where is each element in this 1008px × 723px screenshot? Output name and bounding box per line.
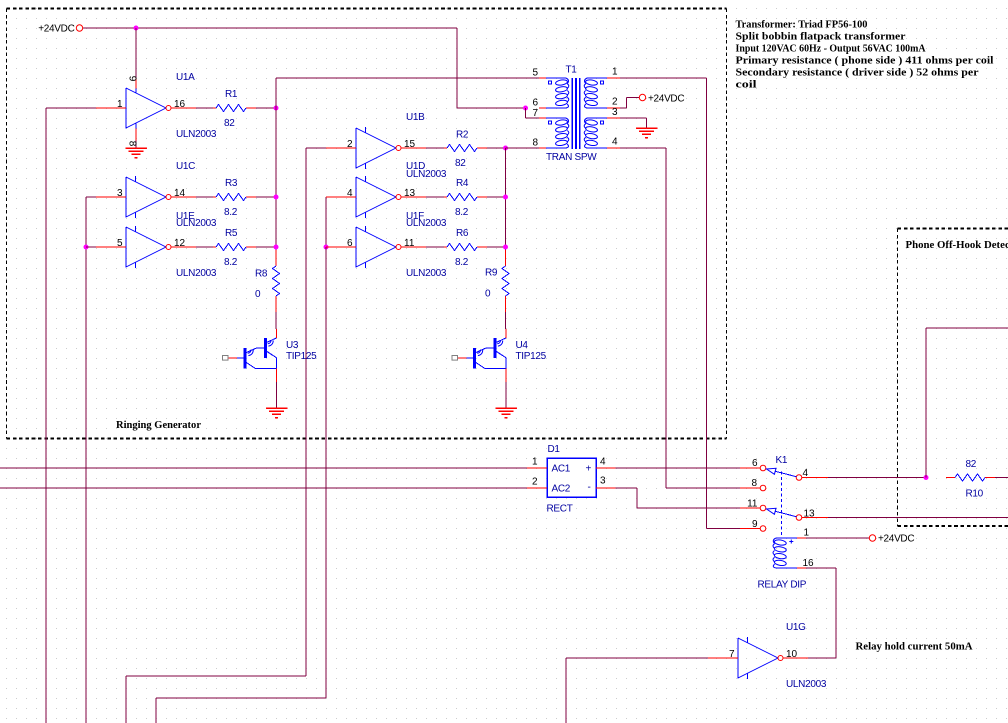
K1 pin 4 label (803, 468, 809, 479)
svg-text:8.2: 8.2 (224, 257, 238, 268)
wire U1D input from left (325, 197, 327, 247)
resistor R8 (273, 250, 280, 312)
svg-text:R10: R10 (966, 489, 984, 500)
U1F pin 11 label (404, 238, 415, 249)
svg-text:8: 8 (532, 138, 538, 149)
svg-text:+24VDC: +24VDC (878, 534, 914, 545)
svg-text:Phone Off-Hook Detector: Phone Off-Hook Detector (906, 239, 1008, 251)
svg-text:R4: R4 (456, 178, 469, 189)
svg-text:Secondary resistance ( driver: Secondary resistance ( driver side ) 52 … (736, 67, 979, 79)
rectifier D1 (527, 458, 616, 497)
wire U1C input from left (86, 197, 96, 723)
ground at T1 pin3 (636, 128, 658, 138)
Ringing Generator dashed box (7, 9, 727, 439)
U1E value label (176, 268, 217, 279)
svg-text:U1E: U1E (176, 211, 195, 222)
wire relay pin1 to +24VDC flag (806, 537, 870, 539)
K1 pin 1 label (804, 528, 810, 539)
U1E pin 12 label (174, 238, 186, 249)
K1 pin 8 label (751, 478, 757, 489)
svg-text:1: 1 (612, 67, 618, 78)
wire T1 pin4 to relay pin8 (620, 148, 740, 488)
node junction top rail to U1A pin9 (134, 26, 139, 31)
wire U1E input stub (86, 246, 96, 248)
wire U1A input from left (46, 108, 96, 723)
power flag +24VDC at relay pin1 (869, 534, 914, 545)
svg-text:1: 1 (117, 99, 123, 110)
svg-text:13: 13 (404, 188, 416, 199)
svg-text:AC2: AC2 (552, 484, 571, 495)
svg-text:coil: coil (736, 79, 757, 91)
U1C value label (176, 218, 217, 229)
svg-text:8: 8 (127, 141, 138, 147)
op-amp buffer U1G (708, 637, 808, 679)
svg-text:4: 4 (612, 137, 618, 148)
svg-text:0: 0 (485, 289, 491, 300)
svg-text:U4: U4 (516, 340, 529, 351)
node R4 output junction (503, 195, 508, 200)
svg-text:2: 2 (347, 139, 353, 150)
T1 pin 6 label (532, 98, 538, 109)
svg-text:12: 12 (174, 238, 186, 249)
svg-text:9: 9 (752, 519, 758, 530)
wire U1C out to R3 (172, 196, 215, 198)
U1D pin 13 label (404, 188, 416, 199)
U1B ref label (406, 112, 425, 123)
T1 pin 3 label (612, 107, 618, 118)
U3 ref label (286, 340, 299, 351)
svg-text:8: 8 (751, 478, 757, 489)
svg-text:Ringing Generator: Ringing Generator (116, 419, 201, 431)
U1C ref label (176, 161, 195, 172)
R4 value label (455, 207, 469, 218)
svg-text:R2: R2 (456, 130, 469, 141)
resistor R1 (213, 105, 256, 112)
node U1F input junction (324, 245, 329, 250)
op-amp buffer U1B (326, 127, 426, 169)
node R10 junction (924, 475, 929, 480)
U1F pin 6 label (347, 238, 353, 249)
wire D1 pin4 to relay pin6 (616, 467, 741, 469)
Phone Off-Hook Detector label (906, 239, 1008, 251)
svg-text:10: 10 (786, 649, 798, 660)
R2 ref label (456, 130, 469, 141)
svg-text:R8: R8 (255, 269, 268, 280)
wire relay pin13 to right edge (828, 517, 1008, 519)
T1 pin 5 label (532, 68, 538, 79)
U1A pin 9 label (127, 76, 138, 82)
resistor R5 (213, 244, 256, 251)
K1 pin 16 label (803, 558, 815, 569)
svg-text:Primary resistance ( phone sid: Primary resistance ( phone side ) 411 oh… (736, 55, 994, 67)
R3 value label (224, 207, 238, 218)
U1F value label (406, 268, 447, 279)
relay note (856, 641, 973, 653)
R5 value label (224, 257, 238, 268)
T1 pin 2 label (612, 97, 618, 108)
U1C pin 14 label (174, 188, 186, 199)
wire T1 pin3 to ground (620, 118, 647, 128)
wire T1 pin1 to relay pin9 (620, 78, 740, 529)
svg-text:R3: R3 (225, 178, 238, 189)
T1 pin 1 label (612, 67, 618, 78)
R1 ref label (225, 89, 238, 100)
svg-text:8.2: 8.2 (455, 207, 469, 218)
wire T1 pin7 jog (526, 108, 541, 118)
svg-text:K1: K1 (776, 455, 788, 466)
R1 value label (224, 118, 235, 129)
D1 pin 4 label (600, 457, 606, 468)
svg-text:U1F: U1F (406, 211, 424, 222)
R2 value label (455, 158, 466, 169)
svg-text:7: 7 (532, 108, 538, 119)
svg-text:+24VDC: +24VDC (38, 24, 74, 35)
U1G pin 7 label (729, 649, 735, 660)
U1A pin 8 label (127, 141, 138, 147)
K1 ref label (776, 455, 788, 466)
T1 pin 8 label (532, 138, 538, 149)
svg-text:ULN2003: ULN2003 (786, 679, 827, 690)
svg-text:-: - (588, 482, 591, 493)
op-amp buffer U1F (326, 226, 426, 268)
svg-text:Split bobbin flatpack transfor: Split bobbin flatpack transformer (736, 31, 906, 43)
D1 plus label (586, 464, 592, 475)
node U1E input junction (84, 245, 89, 250)
wire R3 to junction (255, 196, 276, 198)
wire T1 pin2 to +24VDC flag (620, 98, 640, 109)
U1E pin 5 label (117, 238, 123, 249)
op-amp buffer U1D (326, 176, 426, 218)
wire D1 pin3 to relay pin11 (616, 488, 741, 508)
ground under U1A (125, 148, 147, 158)
op-amp buffer U1E (96, 226, 196, 268)
K1 pin 9 label (752, 519, 758, 530)
svg-text:Input 120VAC 60Hz - Output 56V: Input 120VAC 60Hz - Output 56VAC 100mA (736, 43, 926, 55)
wire relay pin16 to U1G out (806, 568, 837, 658)
wire R4 to junction (487, 196, 506, 198)
resistor R4 (444, 194, 487, 201)
D1 minus label (588, 482, 591, 493)
svg-text:3: 3 (600, 476, 606, 487)
svg-text:82: 82 (966, 459, 977, 470)
U1D value label (406, 218, 447, 229)
svg-text:8.2: 8.2 (224, 207, 238, 218)
svg-text:11: 11 (404, 238, 415, 249)
svg-text:16: 16 (174, 99, 186, 110)
wire U1D out to R4 (401, 196, 445, 198)
resistor R10 (946, 474, 995, 481)
svg-text:AC1: AC1 (552, 464, 571, 475)
svg-text:82: 82 (224, 118, 235, 129)
svg-text:6: 6 (347, 238, 353, 249)
svg-text:1: 1 (532, 457, 538, 468)
power flag +24VDC top left (38, 24, 82, 35)
wire U1B input from left (126, 148, 326, 723)
svg-text:U1B: U1B (406, 112, 425, 123)
svg-text:ULN2003: ULN2003 (406, 268, 447, 279)
T1 value label (546, 152, 597, 163)
R9 ref label (485, 268, 498, 279)
svg-text:6: 6 (752, 458, 758, 469)
D1 pin 1 label (532, 457, 538, 468)
svg-text:5: 5 (532, 68, 538, 79)
K1 pin 13 label (804, 509, 816, 520)
svg-text:4: 4 (803, 468, 809, 479)
wire +24VDC top rail (83, 28, 523, 108)
U1D pin 4 label (347, 188, 353, 199)
K1 pin 11 label (747, 499, 758, 510)
svg-text:U1G: U1G (786, 622, 806, 633)
U4 ref label (516, 340, 529, 351)
transistor U3 (223, 329, 277, 408)
svg-text:Relay hold current 50mA: Relay hold current 50mA (856, 641, 973, 653)
R8 ref label (255, 269, 268, 280)
K1 pin 6 label (752, 458, 758, 469)
T1 pin 7 label (532, 108, 538, 119)
svg-text:6: 6 (532, 98, 538, 109)
U1F ref label (406, 211, 424, 222)
R8 value label (255, 289, 261, 300)
resistor R6 (444, 244, 487, 251)
ground under U3 (266, 408, 288, 418)
wire R8 to U3 (275, 306, 277, 329)
op-amp buffer U1C (96, 176, 196, 218)
wire R9 to U4 (505, 306, 507, 329)
svg-text:16: 16 (803, 558, 815, 569)
svg-text:R1: R1 (225, 89, 238, 100)
U1A ref label (176, 72, 195, 83)
wire R2 to junction (487, 147, 506, 149)
U1A value label (176, 129, 217, 140)
R10 value label (966, 459, 977, 470)
U1G pin 10 label (786, 649, 798, 660)
R9 value label (485, 289, 491, 300)
wire U1A pin9 drop (135, 28, 137, 79)
wire D1 pin2 from left (0, 487, 527, 489)
svg-text:1: 1 (804, 528, 810, 539)
U1E ref label (176, 211, 195, 222)
svg-text:2: 2 (532, 477, 538, 488)
transformer T1 (539, 78, 620, 149)
U1G value label (786, 679, 827, 690)
U1B pin 2 label (347, 139, 353, 150)
svg-text:U1C: U1C (176, 161, 195, 172)
U1C pin 3 label (117, 188, 123, 199)
node R3 output junction (274, 195, 279, 200)
D1 pin 2 label (532, 477, 538, 488)
node T1 pin6 junction (523, 106, 528, 111)
svg-text:Transformer: Triad FP56-100: Transformer: Triad FP56-100 (736, 19, 868, 31)
op-amp buffer U1A (96, 79, 196, 149)
svg-text:U1A: U1A (176, 72, 195, 83)
wire R5 to junction (255, 246, 276, 248)
R4 ref label (456, 178, 469, 189)
svg-text:R6: R6 (456, 228, 469, 239)
svg-text:15: 15 (404, 139, 416, 150)
D1 pin 3 label (600, 476, 606, 487)
wire U1E out to R5 (172, 246, 215, 248)
R10 ref label (966, 489, 984, 500)
svg-text:14: 14 (174, 188, 186, 199)
node R2 output junction (503, 146, 508, 151)
wire R1 to junction (255, 107, 276, 109)
U1B pin 15 label (404, 139, 416, 150)
wire relay pin4 to R10 junction (828, 477, 926, 479)
wire U1D-U1F vertical down (156, 247, 326, 723)
svg-text:TIP125: TIP125 (516, 351, 547, 362)
svg-text:ULN2003: ULN2003 (176, 129, 217, 140)
U1G ref label (786, 622, 806, 633)
svg-text:82: 82 (455, 158, 466, 169)
R6 value label (455, 257, 469, 268)
svg-text:TRAN SPW: TRAN SPW (546, 152, 597, 163)
node R1 output junction (274, 106, 279, 111)
wire R10 to right edge (994, 477, 1008, 479)
D1 AC1 label (552, 464, 571, 475)
svg-text:5: 5 (117, 238, 123, 249)
svg-text:4: 4 (347, 188, 353, 199)
svg-text:8.2: 8.2 (455, 257, 469, 268)
svg-text:7: 7 (729, 649, 735, 660)
svg-text:ULN2003: ULN2003 (176, 268, 217, 279)
wire left output bus vertical (276, 78, 540, 257)
resistor R2 (444, 145, 487, 152)
U1A pin 1 label (117, 99, 123, 110)
R6 ref label (456, 228, 469, 239)
D1 ref label (548, 444, 561, 455)
U1D ref label (406, 161, 425, 172)
R5 ref label (225, 228, 238, 239)
svg-text:D1: D1 (548, 444, 561, 455)
svg-text:9: 9 (127, 76, 138, 82)
transformer notes text block (736, 19, 994, 91)
Phone Off-Hook Detector dashed box (898, 229, 1008, 527)
T1 pin 4 label (612, 137, 618, 148)
svg-text:RECT: RECT (547, 504, 573, 515)
wire U1B out to R2 (401, 147, 445, 149)
power flag +24VDC at T1 pin2 (639, 94, 684, 105)
svg-text:R9: R9 (485, 268, 498, 279)
D1 AC2 label (552, 484, 571, 495)
relay K1 (740, 465, 828, 568)
wire U1F out to R6 (401, 246, 445, 248)
U1B value label (406, 169, 447, 180)
svg-text:3: 3 (117, 188, 123, 199)
svg-text:TIP125: TIP125 (286, 351, 317, 362)
ground under U4 (495, 408, 517, 418)
svg-text:T1: T1 (566, 65, 578, 76)
svg-text:U3: U3 (286, 340, 299, 351)
resistor R3 (213, 194, 256, 201)
T1 ref label (566, 65, 578, 76)
wire D1 pin1 from left (0, 467, 527, 469)
svg-text:13: 13 (804, 509, 816, 520)
svg-text:R5: R5 (225, 228, 238, 239)
wire junction up into phone box (926, 328, 1008, 478)
K1 value label (758, 580, 807, 591)
node R6 output junction (503, 245, 508, 250)
svg-text:0: 0 (255, 289, 261, 300)
wire right output bus vertical (506, 148, 541, 257)
Ringing Generator label (116, 419, 201, 431)
node R5 output junction (274, 245, 279, 250)
svg-text:3: 3 (612, 107, 618, 118)
svg-text:+: + (586, 464, 592, 475)
svg-text:RELAY DIP: RELAY DIP (758, 580, 807, 591)
D1 value label (547, 504, 573, 515)
U1A pin 16 label (174, 99, 186, 110)
svg-text:U1D: U1D (406, 161, 425, 172)
svg-text:11: 11 (747, 499, 758, 510)
U3 value label (286, 351, 317, 362)
U4 value label (516, 351, 547, 362)
resistor R9 (502, 250, 509, 312)
transistor U4 (452, 329, 506, 408)
wire U1A out to R1 (172, 107, 215, 109)
wire R6 to junction (487, 246, 506, 248)
svg-text:+24VDC: +24VDC (648, 94, 684, 105)
R3 ref label (225, 178, 238, 189)
wire U1G input from left (566, 658, 708, 723)
svg-text:2: 2 (612, 97, 618, 108)
svg-text:4: 4 (600, 457, 606, 468)
